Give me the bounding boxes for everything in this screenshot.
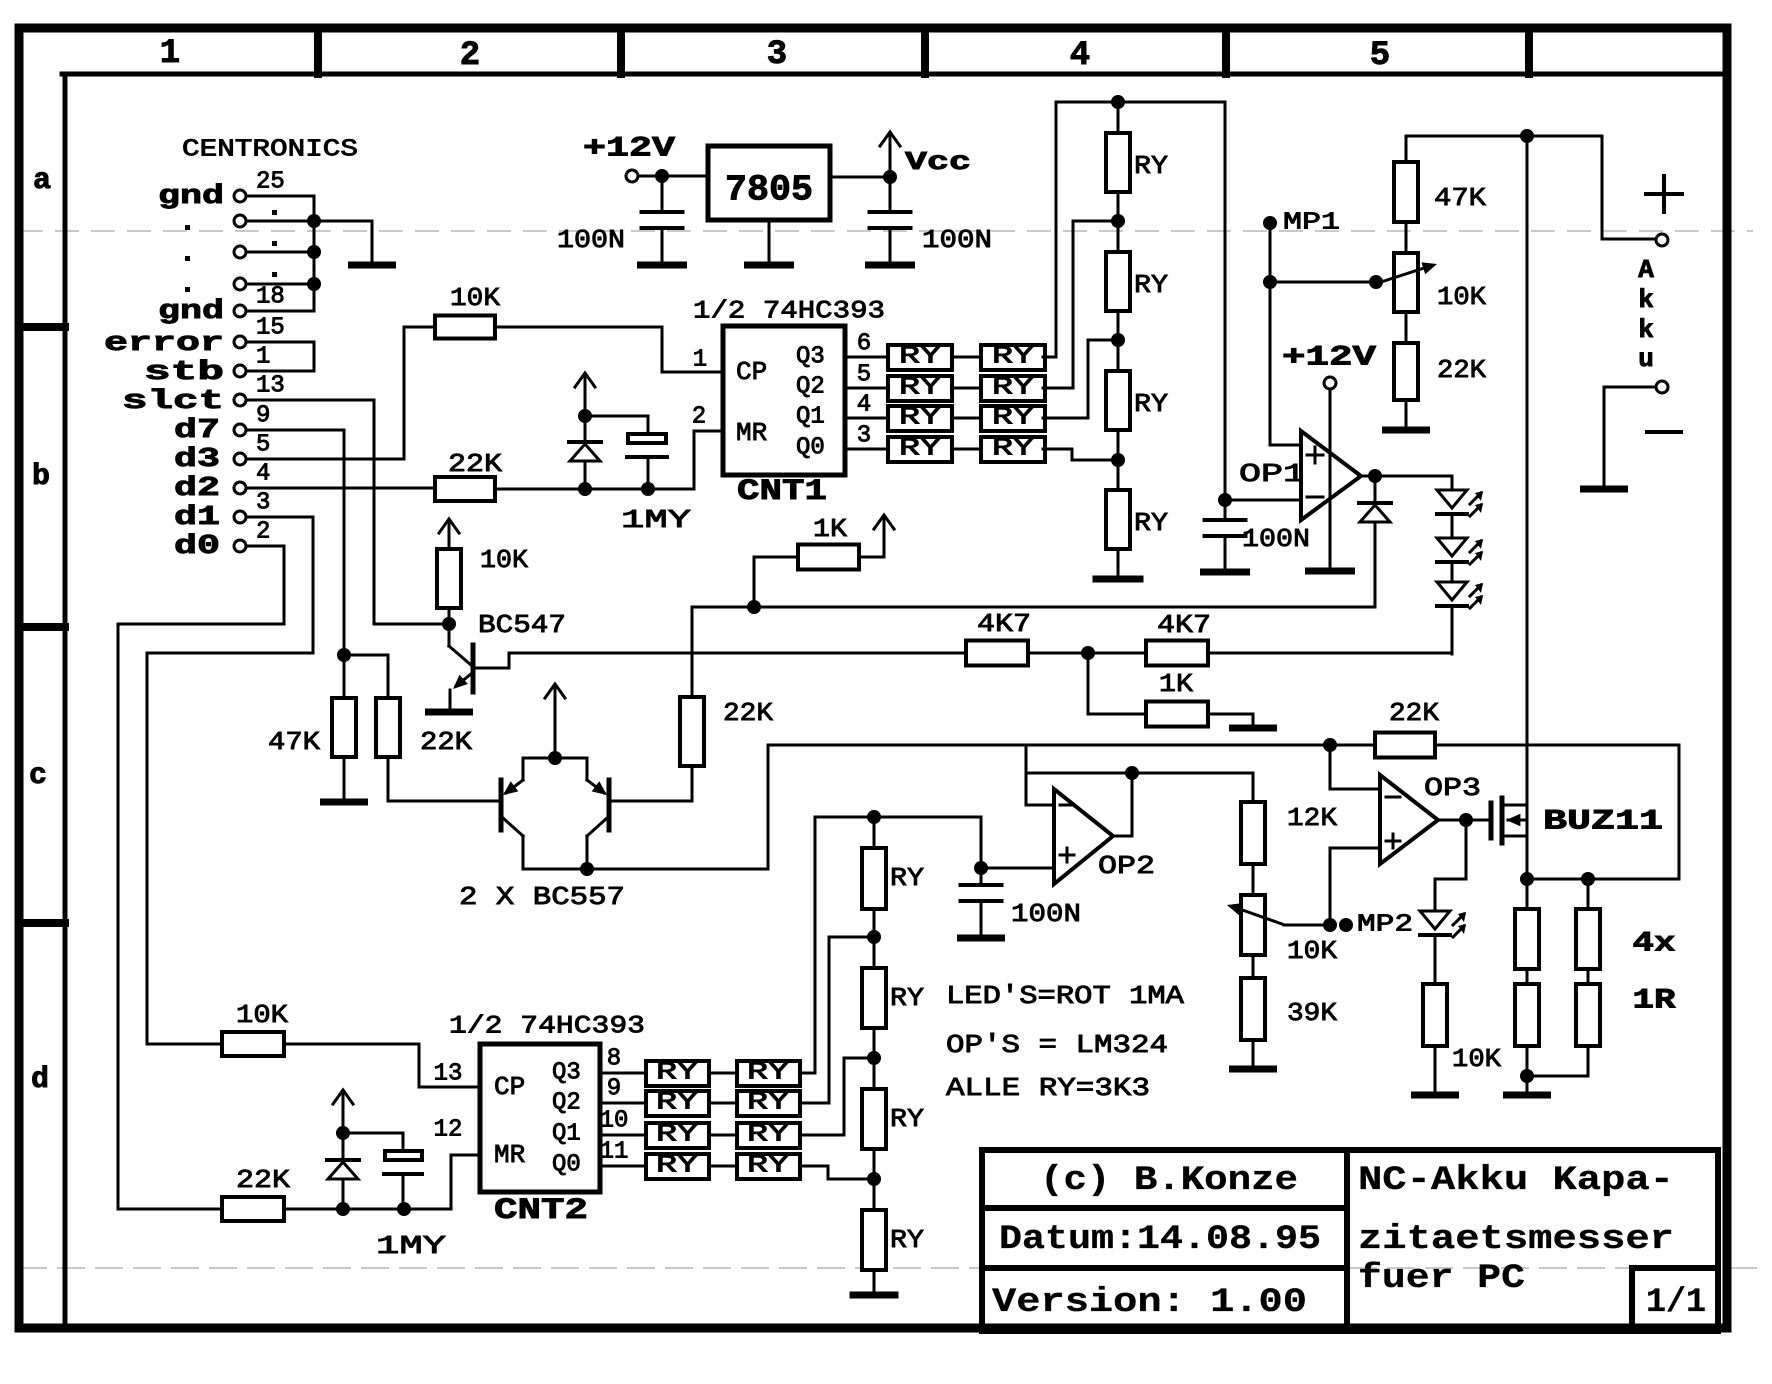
LED at MP2 (1420, 911, 1450, 929)
resistor 10K (CP pull) (435, 316, 495, 339)
wire d1 to 10K (CNT2) (147, 517, 313, 1044)
svg-text:22K: 22K (1389, 698, 1439, 728)
resistor 1K to Vcc (753, 557, 756, 607)
wire 10K to CNT2 CP pin 13 (284, 1044, 480, 1087)
wire BC557 collectors node (523, 868, 768, 871)
svg-text:6: 6 (857, 331, 871, 358)
capacitor 100N at OP2 (980, 868, 983, 884)
svg-text:a: a (33, 164, 51, 198)
svg-text:22K: 22K (723, 698, 773, 728)
ground 100N input cap (641, 262, 684, 269)
wire reset top to cap 1MY CNT2 (343, 1133, 403, 1151)
svg-text:10K: 10K (236, 1000, 288, 1030)
svg-text:1R: 1R (1633, 986, 1676, 1017)
wire d7 to 47K/22K node (246, 430, 344, 655)
svg-text:OP2: OP2 (1098, 851, 1155, 881)
svg-text:22K: 22K (420, 727, 472, 757)
ground 1K (1208, 714, 1253, 726)
svg-text:MR: MR (736, 418, 767, 448)
wire OP2 non-inverting input (981, 867, 1054, 870)
svg-text:100N: 100N (557, 225, 625, 255)
+12V terminal at OP1 (1324, 377, 1336, 389)
svg-text:RY: RY (890, 1104, 924, 1134)
counter CNT1 1/2 74HC393 box (723, 326, 845, 475)
svg-text:+12V: +12V (1282, 343, 1376, 374)
svg-text:fuer PC: fuer PC (1358, 1260, 1525, 1298)
wire ladder1 top node (1056, 101, 1225, 104)
ground ladder2 (873, 1270, 876, 1292)
resistor 12K (1241, 802, 1265, 864)
svg-text:10: 10 (600, 1108, 629, 1135)
resistor RY row2 B (CNT1) (981, 376, 1045, 401)
ground ladder1 (1117, 549, 1120, 576)
resistor 39K (1252, 955, 1255, 978)
plus sign Akku (1646, 192, 1682, 196)
title block box (982, 1150, 1718, 1331)
Vcc arrow 10K BC547 (448, 521, 451, 549)
resistor 1R d (1587, 969, 1590, 984)
svg-text:RY: RY (747, 1090, 789, 1117)
junction dot BC557 collectors (580, 862, 594, 876)
svg-text:4: 4 (857, 392, 871, 419)
wire Akku+ to BUZ11 drain (1526, 136, 1529, 879)
ground 100N output cap (869, 262, 912, 269)
resistor 22K (CNT2 MR) (222, 1197, 284, 1221)
junction dot reset diode CNT2 (336, 1202, 350, 1216)
resistor RY ladder1-3 (1106, 371, 1130, 430)
svg-text:MP1: MP1 (1283, 210, 1340, 237)
wire MP1 node to potentiometer wiper (1270, 281, 1376, 284)
resistor 4K7 first (966, 641, 1028, 666)
test point MP1 (1263, 216, 1277, 230)
wire CNT1 Q1 to RY pair (845, 417, 888, 420)
svg-text:RY: RY (656, 1122, 698, 1149)
svg-text:13: 13 (256, 373, 285, 400)
svg-text:OP1: OP1 (1239, 459, 1305, 489)
svg-text:1/1: 1/1 (1646, 1284, 1706, 1322)
svg-text:zitaetsmesser: zitaetsmesser (1358, 1221, 1674, 1259)
svg-text:Version: 1.00: Version: 1.00 (992, 1284, 1307, 1322)
svg-text:5: 5 (256, 432, 270, 459)
junction dot OP1 output (1368, 469, 1382, 483)
resistor RY ladder2-2 (862, 968, 886, 1028)
svg-text:CNT1: CNT1 (737, 475, 827, 509)
svg-text:Q3: Q3 (796, 344, 825, 371)
resistor RY row4 A (CNT1) (888, 437, 952, 462)
svg-text:b: b (32, 460, 50, 494)
svg-text:RY: RY (1134, 151, 1168, 181)
svg-text:Q1: Q1 (796, 404, 825, 431)
junction dot source col1 (1520, 872, 1534, 886)
svg-text:RY: RY (992, 436, 1034, 463)
wire BC557 node bus to OP3 area (768, 744, 1375, 747)
resistor RY row1 A (CNT2) (646, 1061, 709, 1086)
svg-text:4: 4 (1070, 37, 1090, 75)
svg-text:RY: RY (1134, 389, 1168, 419)
junction dot Akku+ node (1520, 129, 1534, 143)
junction dot OP1 inverting node (1218, 493, 1232, 507)
wire Akku- to ground (1604, 387, 1656, 486)
wire reset node row CNT1 (495, 488, 694, 491)
transistor Q1 BC547 (448, 630, 451, 646)
svg-text:+12V: +12V (583, 134, 675, 165)
svg-text:10K: 10K (1287, 936, 1337, 966)
wire slct to BC547 base node (246, 400, 374, 624)
svg-text:10K: 10K (450, 283, 500, 313)
junction dot MP1 tap (1263, 275, 1277, 289)
junction dot reset diode CNT1 (578, 482, 592, 496)
minus sign Akku (1647, 430, 1681, 434)
Vcc arrow reset CNT1 (584, 375, 587, 414)
resistor 10K LED (1434, 935, 1437, 984)
resistor 10K (CNT2 CP) (222, 1032, 284, 1056)
wire RY row3 to ladder tap2 (1043, 340, 1110, 418)
svg-text:RY: RY (992, 344, 1034, 371)
wire 1R bottom node (1526, 1046, 1529, 1076)
wire 7805 output to Vcc node (830, 176, 890, 179)
svg-text:RY: RY (992, 375, 1034, 402)
junction dot ladder1 tap3 (1117, 430, 1120, 490)
wire RY2 row3 to ladder2 tap2 (800, 1058, 866, 1135)
svg-text:BUZ11: BUZ11 (1543, 807, 1663, 838)
wire RY2 row1 to ladder2 top (800, 817, 815, 1073)
svg-text:Q0: Q0 (796, 435, 825, 462)
svg-text:OP'S = LM324: OP'S = LM324 (946, 1030, 1168, 1060)
resistor 10K base pullup (437, 549, 461, 608)
resistor RY row4 B (CNT2) (737, 1154, 800, 1179)
svg-text:d3: d3 (174, 445, 220, 475)
wire wiper to MP2 (1284, 924, 1327, 927)
wire RY ladder2 bus (815, 817, 981, 868)
ground 47K pulldown (343, 757, 346, 799)
junction dot BC557 emitters (548, 751, 562, 765)
svg-text:RY: RY (656, 1060, 698, 1087)
svg-text:Q2: Q2 (796, 374, 825, 401)
svg-text:BC547: BC547 (478, 610, 566, 640)
junction dot ladder2 tap3 (873, 1149, 876, 1210)
title block page box 1/1 (1632, 1268, 1718, 1331)
svg-text:RY: RY (890, 983, 924, 1013)
svg-text:RY: RY (899, 344, 941, 371)
wire reset row CNT2 (284, 1208, 451, 1211)
LED chain LED2 (1451, 514, 1454, 538)
voltage regulator U1 7805 (708, 146, 830, 220)
wire OP1 output (1361, 475, 1375, 478)
svg-text:47K: 47K (268, 727, 320, 757)
wire gnd pins to ground bus (246, 195, 314, 198)
resistor RY row1 A (CNT1) (888, 345, 952, 370)
resistor RY row4 A (CNT2) (646, 1154, 709, 1179)
wire d0 to 22K (CNT2) (118, 546, 284, 1209)
wire OP3 output (1438, 819, 1491, 822)
wire RY2 row4 to ladder2 tap3 (800, 1166, 866, 1179)
ground symbol centronics (352, 262, 393, 269)
wire CNT2 Q0 to RY pair (600, 1165, 646, 1168)
wire OP1 output to LED chain (1375, 476, 1452, 490)
capacitor 1MY CNT2 (385, 1151, 422, 1160)
OP2 plus sign (1060, 854, 1074, 857)
svg-text:10K: 10K (1452, 1044, 1501, 1074)
ground 1R shunt (1526, 1076, 1529, 1092)
svg-text:RY: RY (890, 1225, 924, 1255)
svg-text:2: 2 (256, 519, 270, 546)
wire OP2 output to 12K (1132, 773, 1253, 802)
junction dot source col2 (1581, 872, 1595, 886)
junction dot OP2 output (1125, 766, 1139, 780)
svg-text:Q3: Q3 (552, 1060, 581, 1087)
svg-text:NC-Akku Kapa-: NC-Akku Kapa- (1358, 1162, 1674, 1200)
junction dot reset top CNT2 (336, 1126, 350, 1140)
svg-text:RY: RY (899, 375, 941, 402)
svg-text:gnd: gnd (158, 182, 224, 212)
junction dot ladder2 tap2 (873, 1028, 876, 1089)
ground Akku- (1584, 486, 1625, 493)
OP1 power rail line and ground (1329, 389, 1332, 568)
LED chain LED1 (1437, 490, 1467, 508)
wire RY row4 to ladder tap3 (1043, 449, 1110, 460)
resistor RY row2 B (CNT2) (737, 1091, 800, 1116)
svg-text:d0: d0 (174, 532, 220, 562)
svg-text:u: u (1638, 344, 1654, 374)
svg-text:ALLE RY=3K3: ALLE RY=3K3 (946, 1073, 1150, 1103)
wire reset top to cap 1MY (585, 416, 648, 434)
resistor RY row2 A (CNT1) (888, 376, 952, 401)
resistor 47K divider (1405, 136, 1408, 162)
svg-text:d2: d2 (174, 474, 220, 504)
svg-text:25: 25 (256, 169, 285, 196)
top band column dividers (314, 30, 322, 74)
svg-text:22K: 22K (236, 1165, 290, 1195)
svg-text:1MY: 1MY (376, 1231, 447, 1261)
svg-text:CP: CP (494, 1072, 525, 1102)
svg-text:Q1: Q1 (552, 1121, 581, 1148)
capacitor 1MY CNT1 (628, 434, 666, 443)
wire ladder1 top to OP1 inverting input (1225, 102, 1301, 500)
resistor RY row3 B (CNT1) (981, 406, 1045, 431)
svg-text:4: 4 (256, 461, 270, 488)
svg-text:3: 3 (256, 490, 270, 517)
svg-text:4K7: 4K7 (977, 609, 1031, 639)
svg-text:RY: RY (747, 1060, 789, 1087)
wire CNT1 Q3 to RY pair (845, 356, 888, 359)
resistor RY ladder1-1 (1117, 102, 1120, 133)
svg-text:RY: RY (747, 1153, 789, 1180)
svg-text:MR: MR (494, 1140, 525, 1170)
svg-text:slct: slct (122, 387, 224, 417)
Akku minus terminal (1656, 381, 1668, 393)
svg-text:d7: d7 (174, 416, 220, 446)
svg-text:RY: RY (899, 436, 941, 463)
wire 22K to right BC557 base (691, 766, 694, 801)
svg-text:10K: 10K (480, 545, 528, 575)
LED chain LED3 (1451, 562, 1454, 582)
junction dot ladder2 top (867, 810, 881, 824)
wire BUZ11 source node (1527, 878, 1679, 881)
wire RY2 row2 to ladder2 tap1 (800, 937, 866, 1103)
junction dot OP3 inverting node (1323, 738, 1337, 752)
op-amp OP3 triangle (1380, 775, 1438, 864)
wire +12V to 7805 input (638, 175, 708, 178)
svg-text:9: 9 (256, 403, 270, 430)
ellipsis dots left column (185, 225, 190, 230)
svg-text:2: 2 (692, 404, 706, 431)
junction dot Vcc node (883, 170, 897, 184)
junction dot ladder1 top (1111, 95, 1125, 109)
resistor RY row3 B (CNT2) (737, 1123, 800, 1148)
svg-text:MP2: MP2 (1357, 912, 1413, 939)
svg-text:d: d (31, 1063, 49, 1097)
svg-text:100N: 100N (922, 225, 992, 255)
resistor RY ladder1-4 (1106, 490, 1130, 549)
svg-text:CNT2: CNT2 (494, 1194, 588, 1228)
resistor 22K OP1-node to BC557 base (691, 607, 694, 697)
wire CNT1 Q2 to RY pair (845, 387, 888, 390)
svg-text:d1: d1 (174, 503, 220, 533)
svg-text:RY: RY (992, 405, 1034, 432)
svg-text:RY: RY (747, 1122, 789, 1149)
+12V input terminal (626, 170, 638, 182)
resistor 4K7 second (1146, 641, 1208, 666)
junction dot reset cap CNT2 (397, 1202, 411, 1216)
wire OP2 feedback loop (1026, 773, 1132, 836)
svg-text:2 X BC557: 2 X BC557 (459, 882, 625, 912)
resistor 1K to ground (1088, 653, 1146, 714)
svg-text:RY: RY (899, 405, 941, 432)
svg-text:22K: 22K (1437, 355, 1486, 385)
resistor 47K pulldown (343, 655, 346, 698)
wire CNT2 Q3 to RY pair (600, 1072, 646, 1075)
wire CNT2 Q2 to RY pair (600, 1102, 646, 1105)
junction dot ladder1 tap1 (1117, 192, 1120, 252)
resistor RY ladder1-2 (1106, 252, 1130, 311)
7805 ground pin wire (768, 220, 771, 262)
wire Vdiv top node (1406, 135, 1527, 138)
wire MP2 to OP3 non-inverting input (1330, 848, 1380, 925)
wire CNT2 Q1 to RY pair (600, 1134, 646, 1137)
svg-text:c: c (29, 759, 47, 793)
transistor Q4 BUZ11 MOSFET (1489, 803, 1494, 838)
Vcc arrow reset CNT2 (342, 1092, 345, 1131)
svg-text:Q2: Q2 (552, 1090, 581, 1117)
svg-text:5: 5 (1370, 37, 1390, 75)
wire collectors to OP2 bus (767, 745, 770, 869)
junction dot 1K riser (747, 600, 761, 614)
resistor RY row4 B (CNT1) (981, 437, 1045, 462)
resistor 22K (MR pull) (435, 477, 495, 501)
junction dot d7 node (337, 648, 351, 662)
transistor Q3 BC557 (right) (555, 758, 587, 780)
wire OP1 diode to 1K node bus (692, 606, 1375, 609)
resistor RY ladder2-1 (873, 817, 876, 848)
svg-text:RY: RY (656, 1153, 698, 1180)
wire 4K7 to LED chain (1208, 652, 1452, 655)
OP2 minus sign (1060, 804, 1074, 807)
wire 4K7 node (1028, 652, 1146, 655)
wire slct riser to base node (374, 623, 442, 626)
wire 10K to base node (448, 608, 451, 618)
svg-text:1: 1 (160, 35, 180, 73)
svg-text:1K: 1K (1159, 669, 1193, 699)
transistor Q2 BC557 (left) (523, 758, 555, 780)
diode reset CNT2 (342, 1133, 345, 1160)
junction dots ground bus (307, 214, 321, 228)
svg-text:RY: RY (1134, 508, 1168, 538)
test point MP2 dots (1323, 918, 1337, 932)
left band row dividers (22, 323, 65, 331)
svg-text:100N: 100N (1242, 524, 1310, 554)
svg-text:RY: RY (656, 1090, 698, 1117)
svg-text:4x: 4x (1633, 929, 1676, 960)
capacitor 100N at OP1 input (1224, 500, 1227, 519)
svg-text:12K: 12K (1287, 803, 1337, 833)
resistor RY row1 B (CNT2) (737, 1061, 800, 1086)
junction dot reset top CNT1 (578, 409, 592, 423)
wire bus tap to OP2 inverting input (1026, 745, 1054, 805)
svg-text:3: 3 (857, 423, 871, 450)
counter CNT2 1/2 74HC393 box (480, 1044, 600, 1192)
svg-text:3: 3 (767, 36, 787, 74)
wire d2 to 22K (246, 487, 435, 490)
svg-text:RY: RY (1134, 270, 1168, 300)
svg-text:11: 11 (600, 1139, 629, 1166)
wire CNT1 Q0 to RY pair (845, 448, 888, 451)
wire OP3 output to LED (1435, 820, 1466, 911)
svg-text:Vcc: Vcc (905, 147, 971, 177)
junction dot OP3 output (1459, 813, 1473, 827)
wire LED chain to 4K7 (1451, 606, 1454, 654)
resistor RY row1 B (CNT1) (981, 345, 1045, 370)
junction dot wiper (1369, 275, 1383, 289)
wire 22K feedback to source node (1435, 745, 1679, 879)
svg-text:CP: CP (736, 357, 767, 387)
wire bus to OP3 inverting input (1330, 745, 1380, 789)
svg-text:22K: 22K (448, 449, 502, 479)
resistor 1R b (1526, 969, 1529, 984)
junction dot 4K7 node (1081, 646, 1095, 660)
junction dot OP2 + node (974, 861, 988, 875)
junction dot 7805 input (655, 169, 669, 183)
OP1 minus sign (1307, 496, 1323, 499)
svg-text:1/2 74HC393: 1/2 74HC393 (449, 1012, 645, 1041)
wire MP1 to OP1 non-inverting input (1270, 223, 1301, 445)
svg-text:k: k (1638, 285, 1654, 315)
svg-text:gnd: gnd (158, 297, 224, 327)
resistor 1R c (1587, 879, 1590, 909)
diode at OP1 output (1374, 476, 1377, 503)
svg-text:8: 8 (607, 1046, 621, 1073)
diode reset CNT1 (584, 418, 587, 442)
svg-text:4K7: 4K7 (1157, 610, 1211, 640)
resistor 22K OP3 feedback (1375, 733, 1435, 758)
svg-text:1: 1 (256, 344, 270, 371)
wire RY row1 to ladder top (1043, 102, 1056, 357)
OP3 plus sign (1386, 840, 1400, 843)
wire d3 to 10K (246, 327, 435, 459)
junction dot ladder1 tap2 (1117, 311, 1120, 371)
wire 10K to CNT1 CP pin 1 (495, 327, 723, 372)
junction dot reset cap CNT1 (641, 482, 655, 496)
Vcc arrow 1K (859, 556, 884, 559)
resistor RY row3 A (CNT1) (888, 406, 952, 431)
svg-text:error: error (104, 329, 224, 359)
svg-text:1/2 74HC393: 1/2 74HC393 (693, 297, 885, 326)
junction dot 1R bottom (1520, 1069, 1534, 1083)
inner drawing border (62, 72, 1724, 77)
capacitor 100N at 7805 output (889, 182, 892, 211)
wire 22K to left BC557 base (387, 757, 390, 801)
wire ground bus to ground symbol (314, 221, 372, 262)
svg-text:A: A (1638, 255, 1654, 285)
